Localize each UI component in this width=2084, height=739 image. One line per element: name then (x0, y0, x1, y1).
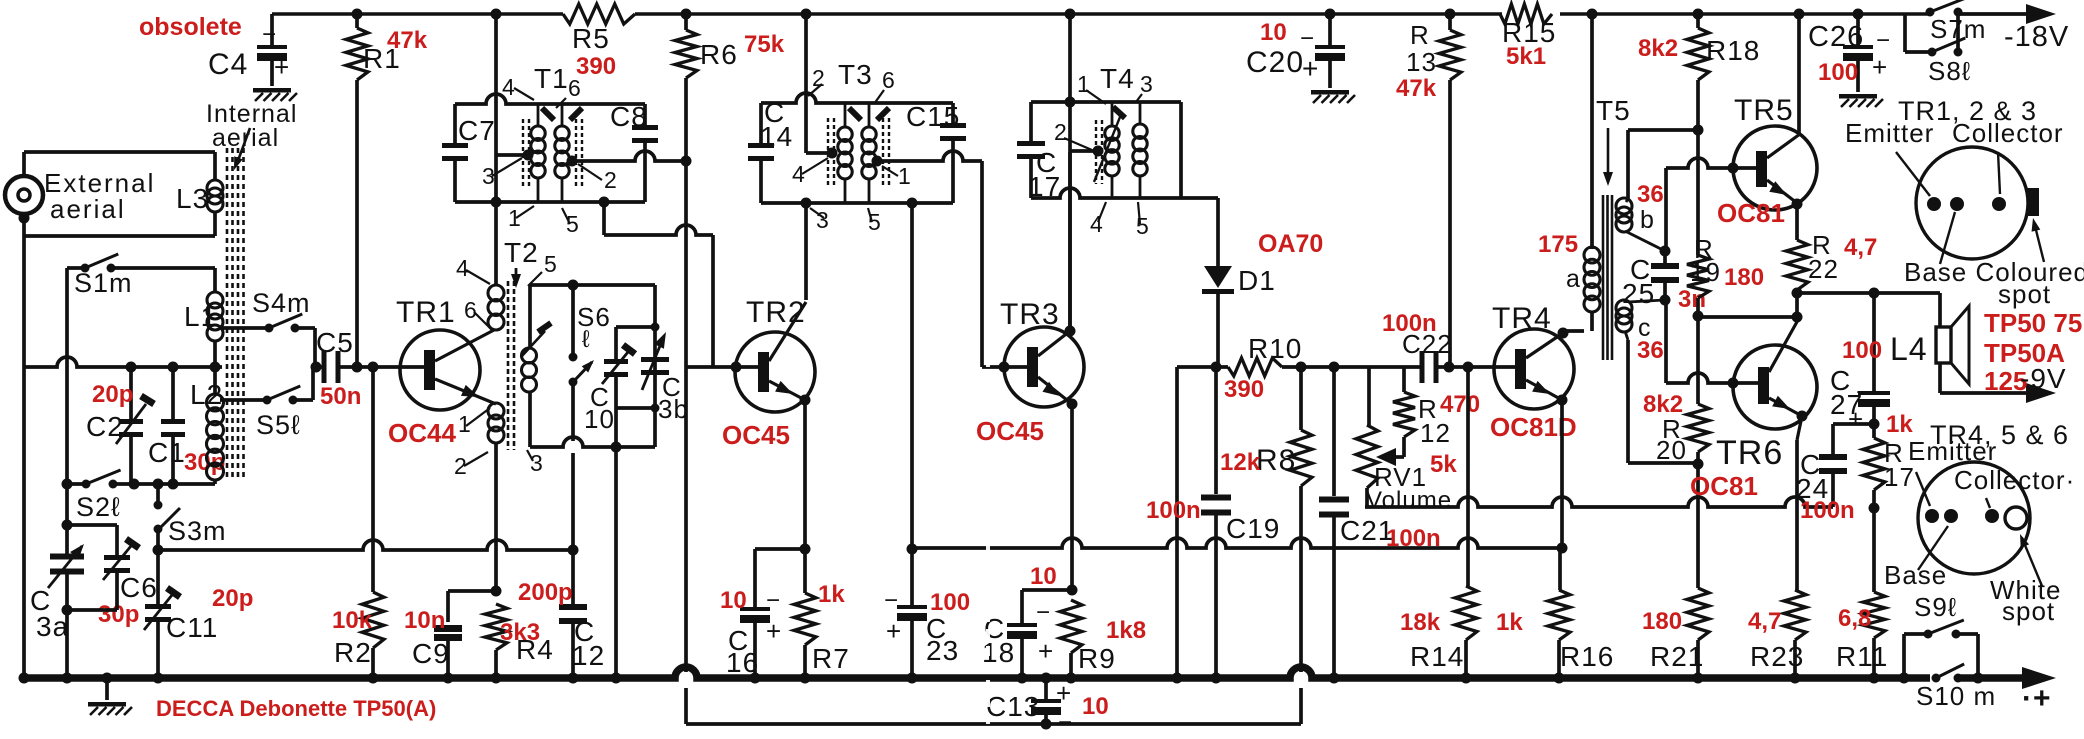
svg-text:8k2: 8k2 (1638, 35, 1678, 62)
wire C10/C3b to rail (614, 450, 618, 680)
speaker L4 (1936, 327, 1951, 363)
resistor R6 75k (681, 9, 692, 20)
capacitor C4 electrolytic (270, 14, 274, 46)
svg-text:1k: 1k (1496, 609, 1523, 636)
svg-text:390: 390 (1224, 376, 1264, 403)
svg-text:R2: R2 (334, 637, 372, 668)
svg-text:1: 1 (508, 205, 522, 231)
T1 box right edge with C8 (643, 104, 647, 128)
wire output to speaker (1797, 291, 1940, 295)
T3 box right edge with C15 (951, 103, 955, 126)
T2 secondary winding pins 5-3 (522, 348, 537, 363)
svg-text:+: + (766, 616, 782, 646)
svg-text:C4: C4 (208, 48, 248, 81)
svg-text:100n: 100n (1146, 497, 1201, 524)
TR4 emitter wire (1526, 380, 1562, 400)
svg-text:Collector: Collector (1952, 118, 2064, 148)
svg-text:+: + (1302, 53, 1319, 84)
ground below C26 (1839, 94, 1877, 99)
svg-text:4,7: 4,7 (1748, 608, 1781, 635)
TR3 emitter wire (1038, 377, 1072, 404)
svg-text:T2: T2 (504, 237, 539, 268)
svg-text:−: − (766, 587, 781, 614)
svg-text:TR5: TR5 (1734, 94, 1794, 127)
wire b bottom to C25 top (1627, 232, 1665, 251)
svg-text:1k: 1k (818, 581, 845, 608)
svg-text:C8: C8 (610, 101, 648, 132)
inductor L2 (213, 367, 217, 394)
wire ground/+ bottom rail (20, 667, 1930, 678)
T1 box left edge with C7 (453, 104, 457, 146)
T3 box top edge (761, 93, 953, 103)
svg-text:2: 2 (604, 167, 618, 193)
TR4,5,6 basing diagram (1918, 462, 2030, 574)
svg-text:OC81: OC81 (1717, 198, 1785, 228)
wire tuning gang common line (left) (153, 545, 164, 556)
T3 secondary tap to TR3 base (872, 156, 883, 167)
svg-text:L3: L3 (176, 183, 209, 214)
wire S4m to C5 (295, 326, 315, 330)
T4 secondary winding (1139, 102, 1142, 124)
svg-text:10: 10 (720, 587, 747, 614)
svg-text:10n: 10n (404, 607, 445, 634)
svg-text:Base: Base (1884, 560, 1947, 590)
internal aerial ferrite rod (226, 148, 229, 480)
svg-text:S10 m: S10 m (1916, 681, 1996, 711)
svg-text:−: − (1036, 599, 1051, 626)
potentiometer RV1 5k Volume (1367, 365, 1371, 369)
wire external aerial box top (22, 152, 26, 176)
wire -18V top supply rail (272, 12, 563, 16)
TR4 collector wire (1526, 333, 1563, 358)
svg-text:R5: R5 (572, 23, 610, 54)
T5 core (1602, 195, 1605, 360)
switch S4m (220, 326, 269, 330)
wire TR2 emitter down to R7/C16 (803, 400, 807, 549)
leader lines (1916, 472, 1930, 506)
svg-text:100: 100 (930, 589, 970, 616)
wire AGC line (right) (912, 538, 1562, 548)
svg-text:Collector·: Collector· (1954, 465, 2075, 495)
T4 box left edge with C17 (1029, 102, 1033, 143)
svg-text:C6: C6 (120, 572, 158, 603)
capacitor C3a variable 30p (50, 554, 84, 560)
svg-text:R9: R9 (1078, 643, 1116, 674)
svg-text:3: 3 (1140, 71, 1154, 97)
svg-text:R16: R16 (1560, 641, 1614, 672)
svg-text:C1: C1 (148, 437, 186, 468)
transistor TR4 OC81D (1494, 329, 1574, 409)
svg-text:13: 13 (1406, 47, 1437, 77)
svg-text:R6: R6 (700, 39, 738, 70)
T3 secondary winding (868, 103, 871, 127)
arrow + battery positive (2022, 667, 2056, 689)
svg-text:L4: L4 (1890, 331, 1928, 367)
svg-text:5: 5 (544, 251, 558, 277)
capacitor C14 (748, 143, 774, 148)
svg-text:180: 180 (1724, 264, 1764, 291)
wire TR4 collector to T5 primary bottom (1563, 329, 1584, 333)
wire S2l row to L2 bottom (113, 482, 215, 486)
svg-text:S3m: S3m (168, 516, 227, 546)
wire feedback line bottom (686, 722, 1301, 726)
svg-text:spot: spot (1998, 279, 2051, 309)
svg-text:OC81: OC81 (1690, 471, 1758, 501)
capacitor C25 3n (1660, 246, 1671, 257)
TR1 emitter wire with arrow (435, 379, 496, 404)
svg-text:C7: C7 (458, 115, 496, 146)
wire output node (1792, 288, 1803, 299)
svg-text:5k: 5k (1430, 451, 1457, 478)
capacitor C26 100uF (1853, 9, 1864, 20)
svg-text:12: 12 (572, 640, 605, 671)
T1 secondary winding (561, 104, 564, 126)
svg-text:Base Coloured: Base Coloured (1904, 257, 2084, 287)
inductor L1 (207, 292, 223, 308)
resistor R21 180 (1687, 588, 1709, 640)
svg-text:TR3: TR3 (1000, 298, 1060, 331)
wire S1m branch down (65, 268, 69, 484)
svg-text:100: 100 (1842, 337, 1882, 364)
svg-text:R11: R11 (1836, 641, 1888, 672)
capacitor C1 30p (171, 367, 175, 421)
switch S7m (1926, 8, 1935, 17)
svg-text:R18: R18 (1706, 35, 1760, 66)
capacitor C3b variable (on box edge) (641, 357, 669, 362)
svg-text:2: 2 (1054, 119, 1068, 145)
svg-text:1: 1 (898, 163, 912, 189)
external aerial terminal (5, 176, 43, 214)
resistor R15 (inline top rail) (1500, 4, 1552, 24)
svg-text:5k1: 5k1 (1506, 43, 1546, 70)
svg-text:1k8: 1k8 (1106, 617, 1146, 644)
svg-text:5: 5 (1136, 213, 1150, 239)
capacitor C16 10uF (755, 547, 805, 551)
svg-text:TR1: TR1 (396, 296, 456, 329)
svg-text:18k: 18k (1400, 609, 1441, 636)
capacitor C24 100n (1833, 422, 1874, 426)
svg-text:36: 36 (1637, 181, 1664, 208)
svg-text:14: 14 (760, 121, 793, 152)
svg-text:−: − (1058, 709, 1073, 734)
svg-text:+: + (1848, 404, 1864, 434)
svg-text:6: 6 (882, 67, 896, 93)
TR5 emitter wire (1767, 180, 1797, 203)
wire aerial bus to TR1 base line (24, 357, 222, 367)
svg-text:C2: C2 (86, 411, 124, 442)
switch S2l (62, 479, 73, 490)
svg-text:+: + (886, 616, 902, 646)
svg-text:3a: 3a (36, 611, 69, 642)
capacitor C20 10uF (1325, 9, 1336, 20)
wire TR3 emitter to R9 (1070, 404, 1074, 590)
resistor R12 470 (1402, 367, 1406, 392)
capacitor C10 trimmer (616, 325, 655, 329)
svg-text:Volume: Volume (1366, 487, 1452, 514)
svg-text:−: − (1876, 27, 1891, 54)
TR1,2,3 basing diagram (1916, 147, 2028, 259)
svg-text:−: − (1856, 379, 1871, 406)
T4 box right edge (1179, 102, 1183, 198)
wire rail to -18V arrow (1958, 12, 2030, 16)
svg-text:S2ℓ: S2ℓ (76, 492, 121, 522)
resistor R16 1k (1558, 548, 1562, 590)
svg-text:TR4: TR4 (1492, 302, 1552, 335)
ground symbol bottom left (105, 678, 109, 700)
switch S8l (1903, 14, 1907, 52)
wire C25 top node to TR5 base (1664, 168, 1668, 251)
svg-text:100: 100 (1818, 59, 1858, 86)
svg-text:C15: C15 (906, 101, 960, 132)
svg-text:R7: R7 (812, 643, 850, 674)
T4 adjuster line (1094, 112, 1122, 182)
resistor R4 3k3 (491, 586, 502, 597)
svg-text:S5ℓ: S5ℓ (256, 410, 301, 440)
svg-text:23: 23 (926, 635, 959, 666)
resistor R20 8k2 (1696, 316, 1700, 404)
wire S6 through box to C12 (571, 382, 575, 441)
T3 box left edge with C14 (759, 103, 763, 146)
svg-text:470: 470 (1440, 391, 1480, 418)
capacitor C17 (1017, 141, 1045, 146)
T1 primary tap (496, 153, 528, 157)
svg-text:5: 5 (566, 211, 580, 237)
capacitor C22 100n (1420, 351, 1425, 383)
TR4 base wire (1436, 365, 1515, 369)
svg-text:+: + (1038, 636, 1054, 666)
switch S5l (220, 398, 267, 402)
svg-text:20: 20 (1656, 435, 1687, 465)
wire R6 line below rail to feedback line (684, 688, 688, 724)
svg-text:Emitter: Emitter (1908, 436, 1997, 466)
svg-text:3b: 3b (658, 394, 689, 424)
svg-text:C11: C11 (166, 612, 218, 643)
diode D1 OA70 (1181, 196, 1218, 200)
svg-text:6: 6 (568, 75, 582, 101)
resistor R13 47k (1445, 9, 1456, 20)
resistor R17 1k (1872, 424, 1876, 438)
capacitor C8 (632, 125, 658, 130)
capacitor C19 100n (1214, 367, 1218, 494)
resistor R23 4,7 (1797, 416, 1802, 440)
wire speaker to -9V arrow (1940, 391, 2030, 395)
resistor R5 (inline top rail) (563, 4, 635, 24)
TR6 emitter wire (1769, 398, 1802, 416)
wire T1 pin4 riser from rail to T2 (491, 9, 502, 20)
svg-text:Emitter: Emitter (1845, 118, 1934, 148)
T1 secondary tap to R6 (567, 156, 578, 167)
svg-text:4: 4 (502, 74, 516, 100)
svg-text:obsolete: obsolete (139, 13, 242, 41)
svg-text:47k: 47k (387, 27, 428, 54)
svg-text:R14: R14 (1410, 641, 1464, 672)
svg-text:180: 180 (1642, 608, 1682, 635)
T5 primary winding a (1584, 247, 1600, 263)
svg-text:C26: C26 (1808, 21, 1864, 53)
T3 primary tap (806, 151, 832, 155)
scan seam artifact (986, 0, 990, 734)
resistor R9 1k8 (1060, 600, 1082, 653)
svg-text:R23: R23 (1750, 641, 1804, 672)
svg-text:C20: C20 (1246, 46, 1304, 79)
capacitor C5 50n (311, 362, 322, 373)
svg-text:10k: 10k (332, 607, 373, 634)
svg-text:S4m: S4m (252, 288, 311, 318)
svg-text:200p: 200p (518, 579, 573, 606)
switch S6 (571, 285, 575, 357)
svg-text:3: 3 (530, 450, 544, 476)
wire c top to C25 bottom line (1628, 300, 1665, 302)
T4 primary tap (1068, 102, 1072, 331)
resistor R1 47k (352, 9, 363, 20)
wire T3 riser from rail (801, 9, 812, 20)
svg-text:100n: 100n (1382, 310, 1437, 337)
wire T3 bottom to C23 (907, 198, 918, 209)
capacitor C27 1k (electrolytic) (1872, 293, 1876, 392)
svg-text:75k: 75k (744, 31, 785, 58)
wire S5l to C5 (293, 398, 313, 402)
wire T1 secondary bottom to TR2 base (599, 197, 610, 208)
svg-text:R10: R10 (1248, 333, 1302, 364)
svg-text:10: 10 (1030, 563, 1057, 590)
rail junction dots (19, 673, 30, 684)
resistor R18 8k2 (1693, 9, 1704, 20)
wire S1m to L1 (111, 266, 215, 270)
svg-text:20p: 20p (92, 381, 133, 408)
capacitor C7 (442, 143, 468, 148)
svg-text:4,7: 4,7 (1844, 234, 1877, 261)
svg-text:ℓ: ℓ (582, 326, 591, 353)
wire C3a branch (65, 484, 69, 556)
capacitor C6 trimmer (67, 523, 117, 527)
T2 primary winding pins 4-6 (488, 285, 504, 301)
svg-text:1k: 1k (1886, 411, 1913, 438)
svg-text:3k3: 3k3 (500, 619, 540, 646)
svg-text:b: b (1640, 206, 1655, 234)
transistor TR5 OC81 (1733, 126, 1817, 210)
svg-text:10: 10 (584, 404, 615, 434)
resistor R14 18k (1466, 367, 1470, 586)
capacitor C21 100n (1332, 367, 1336, 496)
S6 wavechange box (530, 283, 655, 287)
TR3 collector wire to T4 (1038, 331, 1070, 356)
inductor L3 (213, 152, 217, 180)
T3 box bottom edge (761, 201, 953, 205)
svg-text:L1: L1 (184, 301, 217, 332)
svg-text:C13: C13 (986, 691, 1040, 722)
wire T2 pin2 to R4 (494, 443, 498, 591)
svg-text:36: 36 (1637, 337, 1664, 364)
T5 secondary winding c (1616, 300, 1632, 316)
wire external aerial box bottom (19, 213, 30, 224)
svg-text:TP50 75: TP50 75 (1984, 308, 2082, 338)
wire C25 bottom node to TR6 base (1664, 300, 1668, 383)
leader lines (1896, 152, 1930, 196)
resistor R8 12k (1299, 367, 1303, 430)
svg-text:S1m: S1m (74, 268, 133, 298)
svg-text:4: 4 (456, 255, 470, 281)
TR2 emitter wire (769, 381, 805, 400)
svg-text:spot: spot (2002, 596, 2055, 626)
svg-text:T3: T3 (838, 59, 873, 90)
T3 core dashes (827, 118, 829, 186)
wire bias feedback line (1365, 497, 1833, 507)
wire R8 bottom through rail to feedback line (1299, 688, 1303, 724)
svg-text:T1: T1 (534, 63, 569, 94)
transistor TR6 OC81 (1733, 345, 1817, 429)
T4 core dashes (1095, 120, 1097, 184)
svg-text:17: 17 (1884, 462, 1915, 492)
svg-text:S9ℓ: S9ℓ (1914, 592, 1957, 622)
resistor R7 1k (803, 549, 807, 593)
T3 primary winding (844, 103, 847, 127)
TR5 base wire into bar (1733, 166, 1757, 170)
svg-text:OA70: OA70 (1258, 230, 1323, 258)
TR2 base wire (686, 365, 758, 369)
svg-text:-18V: -18V (2004, 21, 2069, 53)
svg-text:3: 3 (816, 207, 830, 233)
T1 box bottom edge (455, 200, 645, 204)
T1 core dashes (522, 119, 524, 187)
svg-text:175: 175 (1538, 231, 1578, 258)
capacitor C23 100uF (910, 549, 914, 606)
switch S10m (1932, 674, 1941, 683)
wire T4 riser from rail (1065, 9, 1076, 20)
switch S3m (156, 484, 160, 505)
wire c bottom to R20 bottom (1625, 331, 1628, 340)
svg-text:C5: C5 (316, 327, 354, 358)
T2 core (507, 281, 510, 450)
svg-text:6: 6 (464, 297, 478, 323)
T2 feedback winding pins 1-2 (488, 403, 504, 419)
T4 box bottom edge (1031, 188, 1181, 198)
resistor R22 4,7 (1795, 204, 1799, 240)
svg-text:47k: 47k (1396, 75, 1437, 102)
svg-text:T4: T4 (1100, 63, 1135, 94)
svg-text:−: − (884, 587, 899, 614)
svg-text:TR2: TR2 (746, 296, 806, 329)
svg-text:OC44: OC44 (388, 418, 456, 448)
svg-text:−: − (1300, 25, 1315, 52)
T2 secondary slug adjuster (521, 331, 545, 357)
capacitor C11 trimmer (156, 529, 160, 604)
svg-text:C19: C19 (1226, 513, 1280, 544)
resistor R11 6,8 (1872, 508, 1876, 592)
T4 primary winding (1111, 102, 1114, 126)
switch S1m (67, 266, 85, 270)
wire b top to R18/R19 junction (1626, 199, 1628, 202)
svg-text:22: 22 (1808, 254, 1839, 284)
svg-text:19: 19 (1690, 257, 1721, 287)
capacitor C9 10n (448, 589, 496, 593)
svg-text:+: + (1872, 52, 1888, 82)
capacitor C12 200p (571, 550, 575, 606)
T4 box top edge (1031, 100, 1181, 104)
svg-text:DECCA Debonette TP50(A): DECCA Debonette TP50(A) (156, 696, 436, 721)
svg-text:25: 25 (1622, 278, 1655, 309)
svg-text:L2: L2 (190, 379, 223, 410)
transistor TR3 OC45 (1004, 327, 1084, 407)
svg-text:a: a (1566, 265, 1581, 293)
svg-text:12k: 12k (1220, 449, 1261, 476)
svg-text:R21: R21 (1650, 641, 1704, 672)
svg-text:20p: 20p (212, 585, 253, 612)
svg-text:S8ℓ: S8ℓ (1928, 56, 1971, 86)
capacitor C13 10uF (1044, 680, 1048, 700)
resistor R10 390 (1228, 358, 1282, 376)
svg-text:390: 390 (576, 53, 616, 80)
wire detector output line (1175, 367, 1179, 677)
